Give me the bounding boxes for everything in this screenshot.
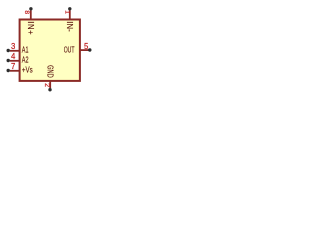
pin 1 IN- wire <box>69 10 71 19</box>
pin 7 +Vs wire <box>10 70 20 72</box>
svg-text:1: 1 <box>63 10 70 14</box>
svg-text:IN-: IN- <box>65 21 74 32</box>
svg-text:5: 5 <box>84 42 89 51</box>
pin 3 A1 wire <box>10 50 20 52</box>
pin 2 dangling node <box>48 88 51 91</box>
svg-text:OUT: OUT <box>64 46 75 55</box>
svg-text:A2: A2 <box>22 56 29 65</box>
pin 4 dangling node <box>7 59 10 62</box>
svg-text:A1: A1 <box>22 46 29 55</box>
pin 8 IN+ wire <box>30 10 32 19</box>
pin 5 dangling node <box>88 48 91 51</box>
pin 4 A2 wire <box>10 60 20 62</box>
pin 7 dangling node <box>7 69 10 72</box>
svg-text:+Vs: +Vs <box>22 66 33 75</box>
svg-text:4: 4 <box>11 52 16 61</box>
svg-text:GND: GND <box>46 65 55 78</box>
svg-text:7: 7 <box>11 62 15 71</box>
pin 1 dangling node <box>68 7 71 10</box>
pin 3 dangling node <box>7 49 10 52</box>
svg-text:IN+: IN+ <box>26 21 35 35</box>
svg-text:3: 3 <box>11 42 15 51</box>
pin 5 OUT wire <box>80 49 89 51</box>
svg-text:2: 2 <box>43 83 50 87</box>
pin 2 GND wire <box>49 81 51 88</box>
svg-text:8: 8 <box>23 10 30 14</box>
pin 8 dangling node <box>29 7 32 10</box>
IC body U1 <box>20 20 80 81</box>
